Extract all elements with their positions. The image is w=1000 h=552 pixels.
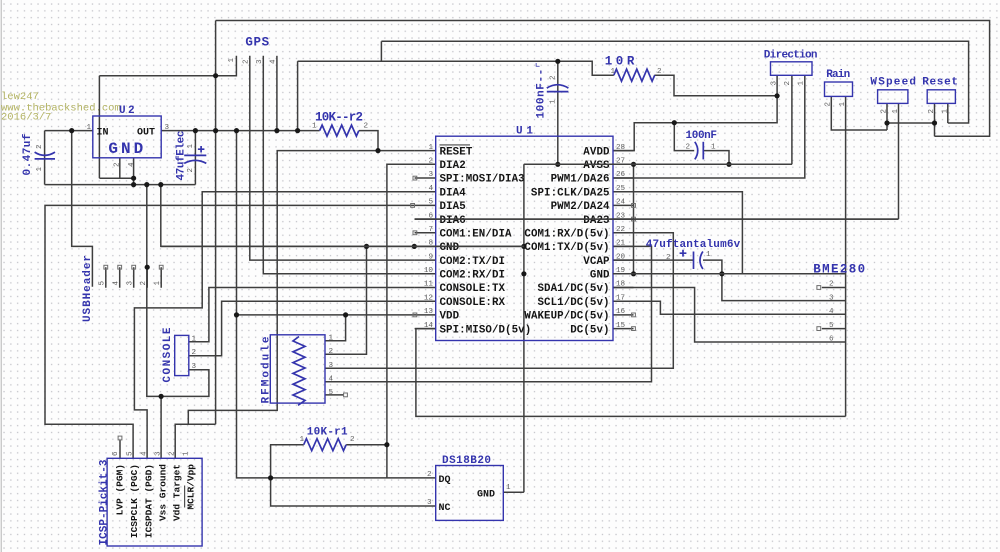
svg-text:2: 2 [350,436,355,444]
U1 left pin numbers [424,144,434,330]
wire Vss GND8 row [161,185,524,247]
wire DIA6-DA23 overdraw [415,218,899,220]
svg-text:MCLR/Vpp: MCLR/Vpp [186,464,197,510]
svg-text:1: 1 [187,144,195,149]
wire WSpeed to Reset link [887,122,935,124]
capacitor 0.47uf [22,133,55,175]
wire CONSOLE pin1 to row11 [189,288,415,342]
svg-text:2: 2 [881,109,889,114]
svg-text:COM2:RX/DI: COM2:RX/DI [440,270,506,282]
connector BME280 [813,263,865,344]
capacitor 47uftantalum6v [646,239,741,269]
wire WSpeed pin1 drop [898,103,900,219]
svg-text:2: 2 [427,471,432,479]
wire RF pin5 stub [325,394,344,396]
svg-text:COM1:RX/D(5v): COM1:RX/D(5v) [524,229,609,241]
U1 right pin numbers [616,144,626,330]
svg-text:20: 20 [616,253,626,261]
wire GND19 row to BME280 pin1 [613,273,846,275]
wire ICSP pin3 Vss drop [160,396,162,458]
svg-text:COM1:EN/DIA: COM1:EN/DIA [440,229,513,241]
svg-text:5: 5 [329,389,334,397]
wire Reset pin2 drop [934,103,936,136]
svg-text:26: 26 [616,171,626,179]
wire 10K-r1 left lead and NC [271,445,436,506]
wire SPI:MISO row14 to BME bar bottom [416,329,846,417]
wire gnd bus y184 [45,184,196,186]
svg-text:47uftantalum6v: 47uftantalum6v [646,239,741,251]
wire PWM1/DA26 row to Direction pin1 [613,75,805,178]
svg-text:3: 3 [256,59,264,64]
svg-text:2: 2 [666,254,671,262]
wire SCL1 row17 to BME280 pin4 [613,301,846,314]
connector USBHeader [82,255,162,322]
wire 100nF2 drop [674,123,694,151]
wire VCAP to cap [613,259,693,261]
svg-text:CONSOLE:RX: CONSOLE:RX [440,297,506,309]
svg-text:OUT: OUT [137,128,155,139]
svg-text:1: 1 [550,99,558,104]
wire x99 down through U2 [98,76,100,179]
wire Direction pin2 drop [791,75,793,164]
svg-text:17: 17 [616,294,625,302]
svg-text:IN: IN [97,128,109,139]
svg-text:ICSPCLK (PGC): ICSPCLK (PGC) [129,464,140,538]
wire COM1:RX row22 to RF pin3 [325,233,673,368]
frame border left [0,0,2,552]
wire top net1 (to Reset pin2) [216,21,990,137]
capacitor 47ufElec [176,131,207,181]
svg-text:4: 4 [270,59,278,64]
svg-text:1: 1 [329,335,334,343]
wire r2 right lead down to RESET [359,131,378,151]
U1 RESET overline [440,144,471,146]
svg-text:1: 1 [892,109,900,114]
svg-text:NC: NC [439,503,451,514]
svg-text:7: 7 [428,226,433,234]
svg-text:GPS: GPS [245,36,269,50]
capacitor 100nF--1 (dashed label) [536,62,569,119]
svg-text:Vss Ground: Vss Ground [158,464,169,521]
svg-text:1: 1 [312,123,317,131]
wire y75 to GPS pin1 [99,56,236,76]
wire 100nF top riser to AVSS [557,61,559,164]
svg-text:1: 1 [706,251,711,259]
wire AVSS stub riser x633 [633,164,635,273]
svg-text:2: 2 [187,168,195,173]
wire DS18B20 GND stub [503,491,524,493]
svg-text:1: 1 [798,81,806,86]
svg-text:COM2:TX/DI: COM2:TX/DI [440,256,506,268]
wire GND19 row overdraw [613,273,846,275]
unconnected pin squares [104,176,821,440]
wire GPS pin4 to bus [276,56,278,131]
svg-text:DIA4: DIA4 [440,187,467,199]
svg-text:DIA2: DIA2 [440,160,466,172]
svg-text:LVP (PGM): LVP (PGM) [115,464,126,515]
wire SPI:CLK/DA25 row down [613,192,742,274]
svg-text:CONSOLE:TX: CONSOLE:TX [440,283,506,295]
svg-text:AVSS: AVSS [583,160,610,172]
svg-text:1: 1 [428,144,433,152]
resistor 10R [605,55,662,82]
svg-text:DIA6: DIA6 [440,215,466,227]
svg-text:5: 5 [428,199,433,207]
connector WSpeed [870,77,916,114]
wire y61 AVDD branch left [298,61,614,75]
svg-text:COM1:TX/D(5v): COM1:TX/D(5v) [524,242,609,254]
svg-text:RESET: RESET [440,146,473,158]
wire SDA1 row18 to BME280 pin6 [613,288,846,343]
svg-text:2: 2 [114,162,122,167]
wire riser bus to y61 [297,61,299,130]
svg-text:3: 3 [771,81,779,86]
wire DIA2 net to DQ [387,164,436,478]
svg-text:25: 25 [616,185,626,193]
svg-text:22: 22 [616,226,626,234]
resistor 10K-r1 [300,426,356,450]
wire ICSP pin2 jog [175,423,215,425]
wire DIA4 net to ICSPDAT [134,192,414,459]
svg-text:2: 2 [550,75,558,80]
svg-text:3: 3 [427,499,432,507]
wire VDD row13 riser to DQ [237,131,436,478]
wire top net2 (to Reset pin1) [381,41,968,123]
svg-text:VCAP: VCAP [583,256,610,268]
wire 10R right lead to Direction [654,75,777,96]
svg-text:3: 3 [192,363,197,371]
svg-text:3: 3 [165,124,170,132]
svg-text:4: 4 [128,162,136,167]
wire GND8 row overdraw [161,245,524,247]
svg-text:2: 2 [243,59,251,64]
title text lew247 [1,91,121,124]
wire U1 right stubs [613,151,634,329]
svg-text:2: 2 [36,144,44,149]
svg-text:21: 21 [616,240,626,248]
svg-text:13: 13 [424,308,434,316]
wire BME280 pin5 stub [822,328,846,330]
svg-text:1: 1 [183,451,191,456]
wire VDD row13 [237,314,413,316]
wire U2 pin2 stub [119,158,121,178]
wire DIA5 net loop [45,205,413,458]
wire vertical long bus x215 [215,21,217,425]
svg-text:DQ: DQ [439,475,451,486]
wire tantalum right to BME280 pin3 [703,260,846,301]
svg-text:5: 5 [127,451,135,456]
wire main bus left into U2 pin1 [45,130,93,132]
svg-text:GND: GND [440,242,460,254]
svg-text:GND: GND [477,489,495,500]
svg-text:14: 14 [424,322,434,330]
IC U1 [436,125,613,340]
wire GND vertical through U1 to DS18B20 [523,164,525,492]
svg-text:18: 18 [616,281,626,289]
connector GPS [228,36,278,65]
svg-text:2: 2 [784,81,792,86]
svg-text:2: 2 [686,144,691,152]
connector Direction [764,49,818,85]
svg-text:3: 3 [127,281,135,286]
svg-text:3: 3 [428,171,433,179]
svg-text:SPI:MOSI/DIA3: SPI:MOSI/DIA3 [440,174,525,186]
wire RESET net to MCLR [175,151,414,459]
wire 47ufElec riser [194,131,196,185]
svg-text:3: 3 [829,294,834,302]
svg-text:DA23: DA23 [583,215,609,227]
svg-text:1: 1 [192,336,197,344]
svg-text:5: 5 [829,322,834,330]
wire ICSP pin6 stub [119,440,121,458]
svg-text:1: 1 [611,68,616,76]
svg-text:2016/3/7: 2016/3/7 [1,112,51,124]
wire RF pin1 riser [325,315,346,341]
wire 100nF2 right to AVSS [703,151,729,165]
wire AVSS row overdraw [524,163,792,165]
svg-text:10K-r1: 10K-r1 [307,426,348,438]
connector Reset [922,77,958,114]
wire GPS pin3 to COM2:RX [263,56,414,274]
resistor 10K--r2 [312,111,369,137]
regulator U2 [87,105,170,167]
svg-text:Vdd Target: Vdd Target [172,464,183,521]
capacitor 100nF (second) [686,130,718,160]
wire U2 pin4 stub [133,158,135,185]
svg-text:10R: 10R [605,55,635,69]
wire 0.47uf riser [44,131,46,185]
svg-text:0.47uf: 0.47uf [22,133,34,175]
svg-text:PWM2/DA24: PWM2/DA24 [551,201,610,213]
svg-text:2: 2 [657,68,662,76]
wire AVDD net up and over to Direction pin3 [613,75,777,150]
svg-text:DIA5: DIA5 [440,201,466,213]
wire 10K-r1 right lead [346,444,387,446]
svg-text:Rain: Rain [826,69,850,81]
svg-text:15: 15 [616,322,626,330]
wire main bus U2 pin3 to r2 [161,130,319,132]
svg-text:1: 1 [228,58,236,63]
svg-text:6: 6 [112,451,120,456]
svg-text:3: 3 [155,451,163,456]
svg-text:1: 1 [941,109,949,114]
connector ICSP-Pickit-3 [99,451,203,546]
connector CONSOLE [162,327,197,382]
svg-text:16: 16 [616,308,626,316]
wire CONSOLE pin2 to row12 [189,301,415,356]
wire RF pin2 riser to GND8 [325,246,367,354]
svg-text:4: 4 [829,308,834,316]
svg-text:SDA1/DC(5v): SDA1/DC(5v) [538,283,610,295]
svg-text:WAKEUP/DC(5v): WAKEUP/DC(5v) [524,311,609,323]
svg-text:1: 1 [36,167,44,172]
svg-text:1: 1 [154,281,162,286]
wire Rain pin2 drop [831,96,887,130]
svg-text:USBHeader: USBHeader [82,255,94,322]
svg-text:10K--r2: 10K--r2 [315,111,363,125]
svg-text:2: 2 [169,451,177,456]
svg-text:2: 2 [364,123,369,131]
svg-text:1: 1 [839,102,847,107]
svg-text:12: 12 [424,294,434,302]
wire Rain pin1 BME280 bar [845,96,847,416]
svg-text:5: 5 [99,281,107,286]
svg-text:AVDD: AVDD [583,146,610,158]
svg-text:4: 4 [428,185,433,193]
connector RFModule [261,335,334,406]
wire WSpeed pin2 drop [886,103,888,130]
wire USB header pin stubs [106,267,161,288]
wire USB pin2 net to CONSOLE pin3 [147,185,209,397]
svg-text:2: 2 [829,281,834,289]
svg-text:2: 2 [928,109,936,114]
U1 right pin names [524,146,610,336]
svg-text:Direction: Direction [764,49,818,61]
connector Rain [825,69,853,107]
wire U1 left stubs [413,164,436,328]
svg-text:1: 1 [300,436,305,444]
wire GPS pin2 to COM2:TX [250,56,415,260]
svg-text:GND: GND [108,140,143,158]
IC DS18B20 [427,455,511,521]
svg-text:4: 4 [141,451,149,456]
svg-text:SPI:CLK/DA25: SPI:CLK/DA25 [531,187,610,199]
svg-text:4: 4 [329,376,334,384]
svg-text:2: 2 [192,349,197,357]
svg-text:9: 9 [428,253,433,261]
wire BME280 pin2 stub [822,287,846,289]
svg-text:100nF: 100nF [686,130,718,142]
svg-text:100nF--⌜: 100nF--⌜ [536,62,548,119]
svg-text:1: 1 [711,144,716,152]
wire U2 gnd pins joiner [99,177,133,179]
svg-text:28: 28 [616,144,626,152]
svg-text:24: 24 [616,199,626,207]
svg-text:10: 10 [424,267,434,275]
svg-text:1: 1 [506,484,511,492]
wire DIA6 DA23 long line [415,218,899,220]
svg-text:2: 2 [329,348,334,356]
wire U1 RESET stub [415,150,436,152]
svg-text:2: 2 [825,102,833,107]
svg-text:GND: GND [590,270,610,282]
svg-text:WSpeed: WSpeed [870,77,916,89]
svg-text:PWM1/DA26: PWM1/DA26 [551,174,610,186]
svg-text:Reset: Reset [922,77,958,89]
wire AVSS row inside U1 [524,163,792,165]
svg-text:ICSP-Pickit-3: ICSP-Pickit-3 [99,459,111,545]
svg-text:DC(5v): DC(5v) [570,324,609,336]
svg-text:11: 11 [424,281,434,289]
svg-text:4: 4 [113,281,121,286]
wire Reset pin1 drop [947,103,949,123]
svg-text:SCL1/DC(5v): SCL1/DC(5v) [538,297,610,309]
U1 left pin names [440,146,532,336]
wire U2 pin1 branch down to GND8 jog [72,131,93,287]
svg-text:ICSPDAT (PGD): ICSPDAT (PGD) [144,464,155,538]
svg-text:2: 2 [140,281,148,286]
svg-text:lew247: lew247 [1,91,39,103]
svg-text:2: 2 [428,158,433,166]
svg-text:1: 1 [87,124,92,132]
svg-text:VDD: VDD [440,311,460,323]
svg-text:3: 3 [329,362,334,370]
svg-text:6: 6 [829,336,834,344]
wire COM1:TX row21 to RF pin4 [325,246,652,381]
svg-text:SPI:MISO/D(5v): SPI:MISO/D(5v) [440,324,532,336]
wire net2 drop to y61 [380,41,382,61]
